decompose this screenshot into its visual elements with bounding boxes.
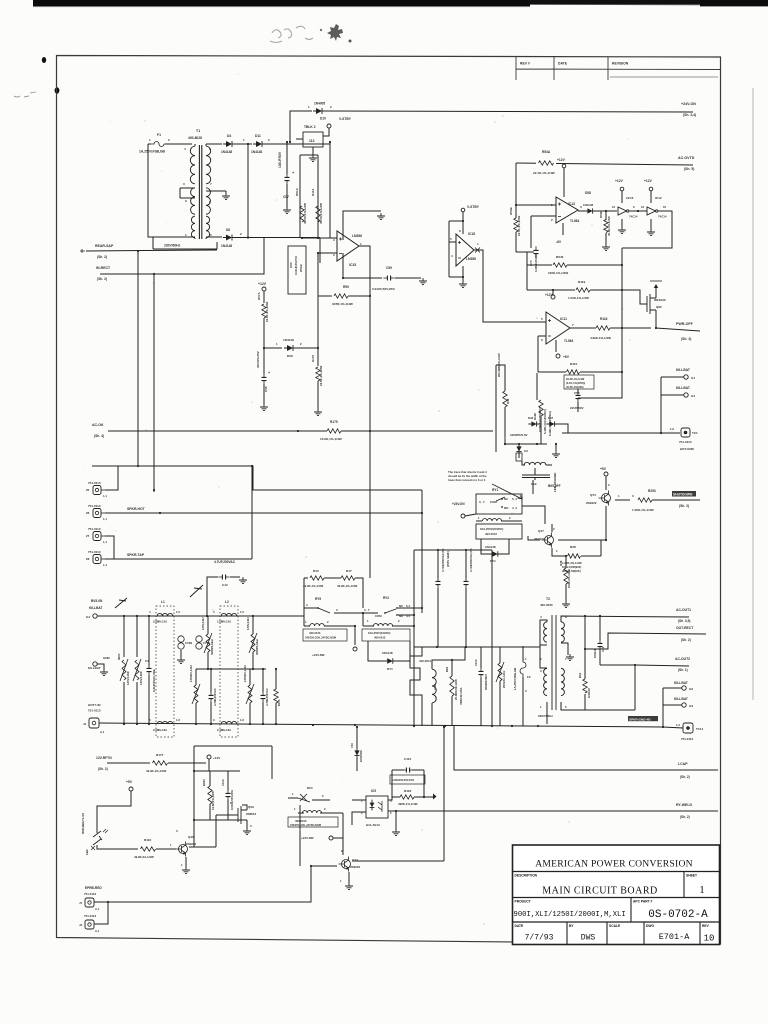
svg-text:RY1: RY1 bbox=[492, 488, 498, 492]
scanner edge black bar (decorative) bbox=[33, 0, 768, 5]
svg-text:2N2222: 2N2222 bbox=[586, 501, 597, 505]
resistor R175 10.0K on AC-OK bbox=[327, 429, 341, 433]
wire bbox=[449, 220, 463, 222]
op-amp IC11 TL084 bbox=[546, 312, 570, 344]
wire bbox=[518, 444, 520, 446]
wire bbox=[225, 191, 227, 194]
wire bbox=[504, 420, 506, 444]
fuse F2 bbox=[520, 659, 526, 677]
svg-text:4.7NF,250VAC: 4.7NF,250VAC bbox=[213, 688, 217, 706]
svg-text:49.9K,1%,1/4W: 49.9K,1%,1/4W bbox=[303, 203, 307, 224]
svg-text:22UF,50V: 22UF,50V bbox=[570, 406, 585, 410]
wire bbox=[504, 385, 506, 391]
wire bbox=[356, 727, 358, 748]
svg-text:A,1: A,1 bbox=[100, 730, 105, 734]
svg-text:A,1: A,1 bbox=[95, 907, 100, 911]
svg-text:+12V: +12V bbox=[258, 282, 267, 286]
svg-text:440-0011: 440-0011 bbox=[419, 659, 431, 663]
svg-text:C113: C113 bbox=[221, 779, 225, 786]
wire bbox=[317, 253, 319, 348]
svg-text:COM: COM bbox=[375, 614, 382, 618]
wire bbox=[216, 814, 238, 816]
terminal G4 input bbox=[93, 614, 97, 618]
svg-text:+24V-8W: +24V-8W bbox=[312, 653, 325, 657]
svg-text:IC13: IC13 bbox=[568, 202, 575, 206]
svg-text:AC-OK: AC-OK bbox=[92, 423, 104, 427]
wire bbox=[661, 394, 684, 396]
svg-text:1UF,250VAC,VDE: 1UF,250VAC,VDE bbox=[152, 669, 156, 692]
wire bbox=[531, 215, 556, 217]
svg-text:(250V GE2F): (250V GE2F) bbox=[446, 551, 450, 567]
wire bbox=[552, 290, 554, 295]
svg-text:D4: D4 bbox=[227, 134, 231, 138]
svg-text:R57A: R57A bbox=[257, 291, 261, 300]
wire bbox=[247, 144, 249, 238]
svg-text:C58: C58 bbox=[574, 391, 580, 395]
svg-text:19.6K,1%,1/4W: 19.6K,1%,1/4W bbox=[211, 791, 215, 810]
svg-text:F1: F1 bbox=[157, 133, 161, 137]
wire bbox=[518, 454, 520, 458]
wire bbox=[395, 811, 397, 830]
wire bbox=[94, 866, 311, 902]
svg-text:10: 10 bbox=[704, 934, 715, 944]
svg-text:R273: R273 bbox=[277, 699, 281, 706]
wire bbox=[329, 142, 331, 238]
svg-text:AC-OUT2: AC-OUT2 bbox=[675, 657, 690, 661]
X-cap C73B circles bbox=[178, 636, 184, 642]
wire bbox=[265, 143, 330, 145]
wire bbox=[462, 266, 464, 282]
svg-text:R51A: R51A bbox=[295, 187, 299, 196]
wire bbox=[107, 762, 150, 764]
wire bbox=[318, 295, 332, 297]
wire bbox=[491, 550, 493, 726]
ground R54D bbox=[602, 244, 610, 251]
wire bbox=[342, 253, 344, 278]
wire bbox=[540, 416, 542, 444]
svg-text:20-0RM,5R,1/4W: 20-0RM,5R,1/4W bbox=[454, 679, 458, 700]
svg-text:10: 10 bbox=[663, 205, 667, 209]
svg-text:G1: G1 bbox=[691, 376, 695, 380]
svg-text:751-0113: 751-0113 bbox=[88, 504, 101, 508]
wire bbox=[580, 371, 622, 373]
wire bbox=[392, 625, 414, 627]
drawing frame border bbox=[57, 56, 721, 945]
wire bbox=[395, 641, 410, 661]
wire bbox=[312, 799, 330, 801]
svg-text:DY1: DY1 bbox=[490, 559, 496, 563]
svg-text:28: 28 bbox=[86, 557, 90, 561]
svg-text:REAR-SAP: REAR-SAP bbox=[95, 244, 114, 248]
wire bbox=[363, 612, 378, 614]
wire bbox=[206, 143, 222, 145]
wire bbox=[105, 536, 114, 559]
wire bbox=[108, 430, 327, 432]
svg-text:0.39UF,50V,5%: 0.39UF,50V,5% bbox=[534, 252, 538, 272]
wire bbox=[193, 746, 195, 847]
svg-text:D58: D58 bbox=[585, 191, 591, 195]
svg-text:2.0MH,16A: 2.0MH,16A bbox=[153, 728, 167, 732]
wire bbox=[629, 210, 647, 212]
svg-text:(Sh. 1): (Sh. 1) bbox=[678, 668, 688, 672]
wire bbox=[304, 607, 318, 609]
terminal TC1 BAT-GND bbox=[681, 428, 690, 437]
wire bbox=[555, 340, 557, 352]
wire bbox=[663, 727, 683, 728]
wire bbox=[480, 678, 482, 726]
svg-text:V-STBY: V-STBY bbox=[339, 117, 352, 121]
wire bbox=[263, 348, 265, 374]
wire bbox=[622, 290, 647, 304]
svg-text:R59: R59 bbox=[343, 285, 349, 289]
svg-text:1.0MH,12A: 1.0MH,12A bbox=[217, 620, 231, 624]
svg-text:RY2: RY2 bbox=[383, 596, 389, 600]
svg-text:0.01UF,50V,5%: 0.01UF,50V,5% bbox=[294, 255, 298, 275]
svg-text:751-0113: 751-0113 bbox=[88, 550, 101, 554]
wire bbox=[537, 336, 539, 372]
wire bbox=[536, 373, 538, 400]
svg-text:9.01UF,50V,20%: 9.01UF,50V,20% bbox=[230, 789, 234, 810]
svg-text:2C13: 2C13 bbox=[626, 196, 634, 200]
svg-text:R110: R110 bbox=[144, 838, 152, 842]
svg-text:1A,250V,VDE,GB: 1A,250V,VDE,GB bbox=[513, 668, 517, 690]
svg-text:TC14: TC14 bbox=[696, 727, 703, 731]
svg-text:1N4148: 1N4148 bbox=[283, 338, 294, 342]
svg-text:1,6: 1,6 bbox=[240, 718, 244, 722]
wire bbox=[578, 372, 622, 398]
svg-text:trace that connects to 3 or 4: trace that connects to 3 or 4 bbox=[448, 478, 486, 482]
svg-text:D8: D8 bbox=[226, 228, 230, 232]
svg-text:R170: R170 bbox=[311, 354, 315, 362]
svg-text:D47: D47 bbox=[548, 416, 554, 420]
svg-text:SPKR-HOT: SPKR-HOT bbox=[127, 507, 146, 511]
svg-text:49.9K,1%,1/4W: 49.9K,1%,1/4W bbox=[337, 584, 358, 588]
relay RY2 coil box label bbox=[362, 629, 410, 641]
svg-text:49.9K,2A,1/4W: 49.9K,2A,1/4W bbox=[134, 855, 154, 859]
wire bbox=[474, 250, 546, 322]
wire bbox=[153, 274, 155, 490]
wire bbox=[398, 614, 414, 616]
svg-text:Q17: Q17 bbox=[538, 529, 544, 533]
wire bbox=[319, 238, 321, 264]
svg-text:(Sh. 3,5): (Sh. 3,5) bbox=[678, 619, 690, 623]
svg-text:130V,14UF: 130V,14UF bbox=[139, 671, 143, 685]
wire bbox=[392, 769, 404, 771]
wire bbox=[504, 443, 547, 445]
wire bbox=[492, 646, 500, 648]
+12V terminal at IC13B bbox=[620, 187, 624, 191]
wire bbox=[557, 424, 568, 433]
wire bbox=[465, 514, 476, 516]
relay RY1 coil box bbox=[476, 524, 522, 539]
wire bbox=[526, 252, 528, 290]
svg-text:IRF9130: IRF9130 bbox=[654, 298, 666, 302]
wire bbox=[448, 242, 450, 277]
wire bbox=[194, 846, 216, 848]
svg-text:1,1: 1,1 bbox=[103, 540, 107, 544]
wire bbox=[462, 212, 464, 234]
svg-text:400-8028: 400-8028 bbox=[188, 136, 202, 140]
svg-text:(Sh. 4): (Sh. 4) bbox=[94, 434, 104, 438]
svg-text:(Sh. 2): (Sh. 2) bbox=[681, 638, 691, 642]
wire bbox=[300, 154, 318, 156]
wire bbox=[152, 237, 154, 249]
wire bbox=[546, 464, 552, 466]
svg-text:490-0012: 490-0012 bbox=[374, 636, 386, 640]
resistor R38 vertical bbox=[564, 568, 568, 584]
svg-text:112: 112 bbox=[309, 139, 315, 143]
svg-text:C52: C52 bbox=[350, 743, 354, 748]
svg-text:(0.1K,1%(1250)): (0.1K,1%(1250)) bbox=[566, 381, 585, 385]
resistor R116 4.99K bbox=[596, 326, 610, 330]
wire bbox=[262, 669, 264, 692]
wire bbox=[593, 210, 617, 212]
transistor Q13 2N2222 bbox=[342, 860, 351, 869]
wire bbox=[413, 550, 415, 725]
svg-text:1,2: 1,2 bbox=[676, 723, 680, 727]
wire bbox=[205, 238, 207, 239]
wire bbox=[454, 726, 718, 770]
svg-text:1N4148: 1N4148 bbox=[485, 545, 496, 549]
wire bbox=[437, 588, 439, 647]
wire bbox=[522, 461, 525, 465]
svg-text:1,5: 1,5 bbox=[240, 610, 244, 614]
wire bbox=[352, 860, 444, 862]
svg-text:R51B: R51B bbox=[299, 263, 303, 272]
svg-text:DATE: DATE bbox=[515, 924, 525, 928]
wire bbox=[209, 771, 211, 786]
wire bbox=[165, 143, 192, 145]
wire bbox=[496, 365, 505, 385]
svg-text:VDR140J-30A: VDR140J-30A bbox=[459, 687, 463, 705]
svg-text:D46: D46 bbox=[528, 416, 534, 420]
svg-text:KILLBAT: KILLBAT bbox=[89, 606, 102, 610]
svg-text:+12V: +12V bbox=[615, 179, 624, 183]
wire bbox=[621, 191, 623, 203]
capacitor C113 bbox=[227, 789, 229, 800]
wire bbox=[518, 453, 520, 458]
wire bbox=[343, 277, 382, 279]
svg-text:5, 4: 5, 4 bbox=[512, 497, 517, 501]
svg-text:BV5-0N: BV5-0N bbox=[91, 599, 103, 603]
wire bbox=[303, 578, 305, 626]
svg-text:490-0013: 490-0013 bbox=[485, 532, 497, 536]
wire bbox=[194, 819, 242, 821]
svg-text:(Sh. 2): (Sh. 2) bbox=[679, 504, 689, 508]
wire bbox=[570, 327, 596, 329]
wire bbox=[551, 524, 553, 532]
wire bbox=[248, 237, 320, 239]
wire bbox=[369, 431, 371, 578]
wire bbox=[565, 556, 567, 568]
wire bbox=[207, 616, 209, 634]
junction wire at x330 bbox=[329, 141, 331, 143]
svg-text:100UF/50V: 100UF/50V bbox=[278, 151, 282, 168]
svg-text:COIL: COIL bbox=[433, 683, 437, 690]
svg-text:NC: NC bbox=[399, 604, 403, 608]
svg-text:IC15: IC15 bbox=[468, 232, 475, 236]
svg-text:100K,1%,1/4W: 100K,1%,1/4W bbox=[548, 271, 568, 275]
svg-text:1,1: 1,1 bbox=[103, 494, 107, 498]
terminal G1 bbox=[684, 375, 688, 379]
wire bbox=[216, 242, 218, 249]
svg-text:(Sh. 2): (Sh. 2) bbox=[97, 255, 107, 259]
op-amp IC13 TL084 bbox=[556, 197, 578, 223]
wire bbox=[412, 769, 424, 771]
wire bbox=[650, 191, 652, 203]
wire bbox=[207, 577, 218, 616]
wire bbox=[209, 804, 211, 820]
svg-text:L1: L1 bbox=[161, 600, 165, 604]
svg-text:HOT-GND: HOT-GND bbox=[680, 447, 695, 451]
wire bbox=[262, 702, 264, 724]
ground TBLK2 bbox=[309, 155, 317, 162]
svg-text:1A,250V,FSB,GB: 1A,250V,FSB,GB bbox=[139, 150, 166, 154]
svg-text:10.0K,1%,1/4W: 10.0K,1%,1/4W bbox=[265, 301, 269, 322]
svg-text:SCALE: SCALE bbox=[609, 924, 621, 928]
wire bbox=[528, 536, 540, 540]
wire bbox=[206, 236, 222, 238]
wire bbox=[414, 549, 492, 551]
svg-text:13: 13 bbox=[641, 205, 645, 209]
small diode pair cluster bbox=[531, 421, 536, 426]
net label SHUTDOWN bbox=[672, 491, 696, 497]
junction at C57 top bbox=[286, 141, 288, 143]
net label SPKR-GND-48 bbox=[628, 716, 658, 721]
varistor low row 2 bbox=[248, 685, 252, 703]
svg-text:GND: GND bbox=[103, 656, 111, 660]
wire bbox=[263, 291, 265, 303]
svg-text:1N4148: 1N4148 bbox=[221, 244, 232, 248]
wire bbox=[334, 612, 363, 614]
wire bbox=[290, 111, 312, 142]
svg-text:2.0MH,12A: 2.0MH,12A bbox=[153, 620, 167, 624]
svg-text:1N4148: 1N4148 bbox=[382, 651, 393, 655]
wire bbox=[105, 558, 252, 560]
svg-text:10.0K,1%,1/4W: 10.0K,1%,1/4W bbox=[320, 437, 342, 441]
svg-text:R115: R115 bbox=[570, 362, 578, 366]
op-amp IC16 LM358 bbox=[337, 231, 359, 261]
stray dots left margin (decorative) bbox=[42, 57, 46, 63]
svg-text:4.7UF/250VAC,5%: 4.7UF/250VAC,5% bbox=[469, 548, 473, 572]
wire bbox=[215, 815, 217, 847]
svg-text:AC-OUT1: AC-OUT1 bbox=[676, 608, 691, 612]
svg-text:1N4005: 1N4005 bbox=[314, 102, 325, 106]
ground C56 bbox=[260, 404, 268, 411]
V-STBY terminal over IC15 bbox=[461, 208, 465, 212]
wire bbox=[208, 759, 210, 771]
wire bbox=[599, 616, 601, 640]
diode C52 1N4005 vertical bbox=[354, 750, 359, 755]
svg-text:4, 4: 4, 4 bbox=[512, 506, 517, 510]
svg-text:R223: R223 bbox=[202, 779, 206, 786]
wire bbox=[499, 647, 501, 663]
wire bbox=[246, 820, 248, 829]
wire bbox=[312, 147, 314, 155]
svg-text:D10: D10 bbox=[320, 117, 326, 121]
svg-text:R113: R113 bbox=[311, 188, 315, 196]
+12V terminal in driver box bbox=[207, 755, 211, 759]
resistor R53B vertical bbox=[514, 218, 518, 232]
wire bbox=[148, 143, 151, 145]
wire bbox=[424, 796, 433, 798]
svg-text:(Sh. 2): (Sh. 2) bbox=[97, 277, 107, 281]
svg-text:+24V-8W: +24V-8W bbox=[301, 836, 314, 840]
svg-text:D54: D54 bbox=[307, 786, 313, 790]
wire bbox=[451, 660, 453, 676]
svg-text:R34: R34 bbox=[578, 672, 582, 678]
wire bbox=[465, 588, 467, 647]
wire bbox=[449, 276, 463, 278]
svg-text:0S-0702-A: 0S-0702-A bbox=[648, 909, 708, 921]
svg-text:(Sh. 2): (Sh. 2) bbox=[681, 337, 691, 341]
wire bbox=[196, 668, 266, 670]
svg-text:1000PF/6.3V: 1000PF/6.3V bbox=[510, 433, 528, 437]
terminal G3 bbox=[682, 703, 686, 707]
net stub REAR-SAP bbox=[80, 249, 85, 253]
wire bbox=[311, 865, 337, 867]
svg-text:R17: R17 bbox=[346, 569, 352, 573]
svg-text:HOT?-IN: HOT?-IN bbox=[88, 703, 101, 707]
svg-text:345/250,COIL,24VDC,NOM: 345/250,COIL,24VDC,NOM bbox=[305, 637, 336, 640]
svg-text:+12V: +12V bbox=[557, 158, 566, 162]
svg-text:45.3K,1%,1/4W: 45.3K,1%,1/4W bbox=[319, 203, 323, 224]
inverter gate IC12 74C14 bbox=[647, 207, 656, 215]
wire bbox=[480, 647, 482, 668]
choke L2 dashed box bbox=[220, 606, 238, 737]
svg-text:130V,140J: 130V,140J bbox=[201, 617, 205, 630]
wire bbox=[148, 616, 150, 666]
wire bbox=[562, 223, 564, 235]
wire bbox=[561, 643, 568, 655]
wire bbox=[194, 770, 240, 772]
wire bbox=[421, 490, 423, 613]
wire bbox=[561, 702, 635, 710]
wire bbox=[546, 620, 547, 622]
svg-text:751-0113: 751-0113 bbox=[88, 527, 101, 531]
wire bbox=[318, 252, 337, 254]
page edge artifact line (decorative) bbox=[752, 88, 754, 700]
wire bbox=[561, 616, 689, 622]
resistor R126 vertical bbox=[539, 400, 543, 416]
wire bbox=[650, 219, 652, 230]
wire bbox=[97, 791, 131, 833]
wire bbox=[148, 144, 195, 237]
wire bbox=[195, 703, 197, 724]
svg-text:D59: D59 bbox=[287, 354, 293, 358]
resistor R54D vertical bbox=[605, 210, 607, 212]
svg-text:420-0025: 420-0025 bbox=[540, 603, 553, 607]
wire bbox=[388, 810, 718, 812]
wire bbox=[205, 144, 207, 146]
wire bbox=[534, 477, 536, 480]
varistor mid row 2 bbox=[251, 634, 255, 652]
wire bbox=[652, 499, 700, 501]
svg-text:+24V-ON: +24V-ON bbox=[681, 102, 696, 106]
ground C57 bbox=[283, 207, 291, 214]
junction +24V riser bbox=[289, 141, 291, 143]
wire bbox=[148, 675, 150, 724]
svg-text:DY1: DY1 bbox=[387, 667, 393, 671]
svg-text:Q5A: Q5A bbox=[248, 805, 255, 809]
wire bbox=[359, 246, 370, 430]
svg-text:C112: C112 bbox=[404, 757, 412, 761]
X-cap C73A circles bbox=[196, 636, 202, 642]
svg-text:C12: C12 bbox=[222, 583, 228, 587]
wire bbox=[558, 506, 606, 540]
svg-text:2.1MH,16A: 2.1MH,16A bbox=[217, 728, 231, 732]
svg-text:F2: F2 bbox=[527, 675, 531, 679]
